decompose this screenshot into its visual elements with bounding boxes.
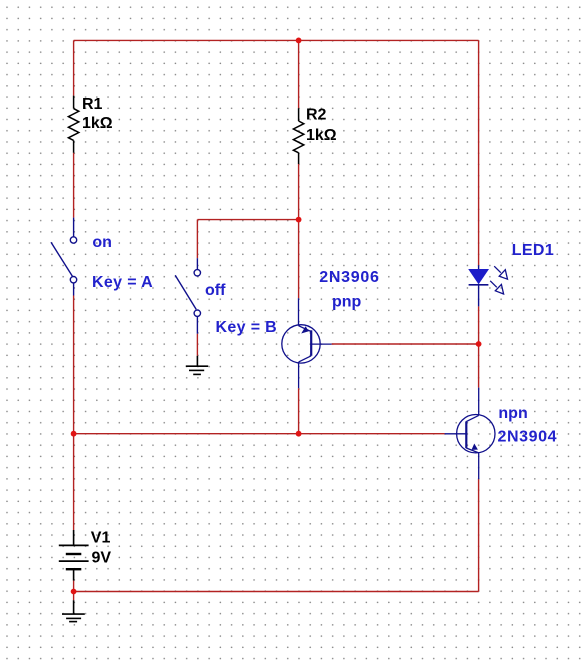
resistor R2 [293, 108, 303, 164]
LED1 [468, 265, 489, 306]
svg-text:Key = A: Key = A [92, 274, 153, 291]
svg-text:R2: R2 [306, 106, 327, 123]
wire left vertical top (VCC to R1) [73, 40, 75, 95]
svg-text:2N3906: 2N3906 [319, 269, 379, 286]
wire mid horizontal (node to NPN base) [74, 433, 445, 435]
wire branch node to switch B horizontal [197, 219, 298, 221]
svg-text:pnp: pnp [332, 294, 362, 311]
svg-text:V1: V1 [91, 529, 111, 546]
switch J1 Key = A [51, 218, 77, 296]
wire PNP base to right net [332, 343, 479, 345]
svg-text:1kΩ: 1kΩ [82, 115, 113, 132]
svg-text:on: on [92, 234, 112, 251]
wire branch down to switch B [196, 220, 198, 259]
junction node left vertical / mid horizontal [71, 431, 77, 437]
svg-text:off: off [205, 282, 226, 299]
wire mid vertical top (VCC to R2) [298, 40, 300, 108]
transistor Q1 2N3906 pnp [282, 298, 332, 388]
wire PNP collector down to mid net [298, 388, 300, 434]
junction node battery minus / bottom net [71, 589, 77, 595]
wire switch B to ground [196, 334, 198, 356]
svg-text:1kΩ: 1kΩ [306, 127, 337, 144]
wire bottom horizontal ground net [74, 591, 479, 593]
junction node PNP collector / mid horizontal [296, 431, 302, 437]
LED1 emission arrow 1 [494, 266, 507, 279]
svg-text:2N3904: 2N3904 [498, 429, 558, 446]
wire R1 to switch A [73, 153, 75, 218]
svg-text:npn: npn [498, 405, 527, 422]
LED1 emission arrow 2 [490, 281, 503, 294]
wire R2 to PNP emitter [298, 164, 300, 298]
junction node PNP base / LED net [476, 341, 482, 347]
junction node VCC / R2 [296, 38, 302, 44]
transistor Q1 emitter arrow [301, 326, 309, 333]
wire battery minus to ground node [73, 581, 75, 601]
svg-text:Key = B: Key = B [216, 319, 278, 336]
svg-text:R1: R1 [82, 96, 103, 113]
transistor Q2 2N3904 npn [445, 388, 495, 480]
wire switch A to battery [73, 296, 75, 531]
battery V1 9V [59, 530, 89, 581]
transistor Q2 emitter arrow [472, 444, 478, 450]
switch J2 Key = B [175, 258, 200, 334]
resistor R1 [68, 96, 78, 153]
svg-text:LED1: LED1 [512, 242, 555, 259]
wire NPN emitter to bottom net [478, 479, 480, 591]
svg-text:9V: 9V [92, 549, 112, 566]
ground under battery [62, 600, 85, 621]
wire LED cathode to NPN collector [478, 306, 480, 387]
wire right vertical (VCC to LED anode) [478, 40, 480, 265]
ground under switch B [186, 356, 208, 375]
wire top horizontal VCC [74, 39, 479, 41]
junction node R2 / switch B branch [296, 217, 302, 223]
